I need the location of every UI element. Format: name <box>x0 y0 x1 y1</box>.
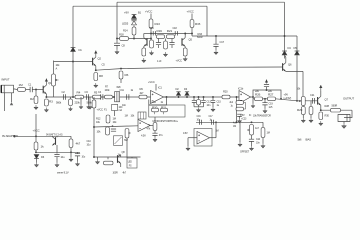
svg-text:1M: 1M <box>233 125 236 128</box>
ground arrow input jack <box>10 102 13 105</box>
power arrow C20 <box>265 80 268 84</box>
junction IC1 out <box>166 96 168 98</box>
label 560k b <box>87 101 93 105</box>
label C13 <box>207 101 212 104</box>
pot VOL wiper <box>55 79 58 81</box>
junction C17 <box>215 35 217 37</box>
label Cb2 <box>87 140 92 143</box>
transistor Q2 <box>93 57 96 66</box>
wire c19 low <box>264 105 266 109</box>
label 4.5V right <box>284 96 292 100</box>
label 4.5Va <box>141 134 146 138</box>
capacitor Cp2 <box>75 154 80 156</box>
label +VCC flasher r <box>176 59 183 63</box>
label R18 <box>119 33 124 37</box>
wire bias vert x94 <box>93 108 95 157</box>
capacitor C20 <box>264 85 269 87</box>
label 1n flasher <box>157 60 162 63</box>
junction x36 y152 <box>35 151 37 153</box>
junction x284 y36 <box>284 35 286 37</box>
diode D2 <box>176 92 180 96</box>
wire Qb coll <box>120 155 122 157</box>
wire IC1b feedback <box>236 97 238 122</box>
wire vertical x297 upper <box>296 36 298 51</box>
feedback box <box>149 105 185 117</box>
ground R29 <box>301 118 305 123</box>
wire Q7 emit <box>320 105 322 110</box>
label R25 <box>332 104 338 108</box>
capacitor Cp1 <box>54 155 59 157</box>
svg-text:220k: 220k <box>75 101 81 105</box>
wire level bottom <box>263 98 268 100</box>
svg-text:MXR DISTORTION+: MXR DISTORTION+ <box>153 119 179 123</box>
wire x36 low <box>35 150 37 152</box>
wire D6 low <box>36 159 38 163</box>
wire C8 stub <box>116 45 118 49</box>
wire rail y33.5 <box>151 33 192 35</box>
ground Rp2 <box>69 157 73 162</box>
ground flasher b <box>163 52 167 57</box>
wire vcc stub x151 <box>150 14 152 20</box>
svg-text:INPUT: INPUT <box>2 78 10 82</box>
label fuse2 <box>104 108 107 112</box>
label botblob1 <box>113 172 119 175</box>
wire chain stub top <box>154 117 156 123</box>
resistor R10 <box>152 106 159 112</box>
resistor R25 <box>331 108 341 112</box>
label railc2a <box>209 115 214 118</box>
label railc2b <box>210 118 213 121</box>
wire shunt198 stub <box>198 97 200 100</box>
wire top rail y6 <box>73 5 207 7</box>
junction Q7 emit <box>320 109 322 111</box>
capacitor C1 <box>30 87 32 93</box>
label C11 <box>120 88 125 92</box>
label R5 <box>94 91 98 95</box>
wire fb cap stub <box>239 116 241 118</box>
label C17 <box>220 40 225 44</box>
wire output corner <box>344 110 352 117</box>
svg-text:4.5V: 4.5V <box>183 132 188 135</box>
component box small <box>112 105 118 111</box>
ground cf1 <box>238 142 242 147</box>
label 1kc <box>118 153 121 157</box>
label t3 <box>253 115 271 118</box>
resistor shunt70 <box>69 99 73 106</box>
label R9 <box>140 87 144 91</box>
ground R2 <box>34 105 38 110</box>
resistor R12b <box>153 123 157 131</box>
wire shunt198 low <box>198 105 200 107</box>
opamp box IC3 <box>194 129 212 147</box>
ground bias chain <box>153 137 157 142</box>
junction R14 foot <box>133 38 135 40</box>
svg-text:R30: R30 <box>325 114 330 118</box>
wire r22 stub <box>158 39 160 43</box>
label D1 <box>79 48 83 52</box>
label 6k8 <box>117 85 121 89</box>
label C1 <box>28 83 32 87</box>
wire x57 down <box>56 145 58 154</box>
capacitor C17 <box>213 44 218 46</box>
resistor R24 <box>183 48 187 56</box>
ground below R5 <box>88 105 92 110</box>
wire vertical x297 lower <box>296 55 298 101</box>
wire bias y157 <box>94 156 141 158</box>
ground IC3 <box>186 146 190 151</box>
label 10k pot <box>297 88 301 91</box>
label led2 <box>128 162 133 164</box>
ground fb <box>237 119 241 124</box>
junction x151 y38.5 <box>150 38 152 40</box>
wire rail y36 <box>192 35 297 37</box>
capacitor Cb1 plus <box>112 125 114 127</box>
capacitor C23f <box>169 43 174 45</box>
resistor R8 <box>94 73 103 81</box>
wire c18 stub <box>165 39 167 42</box>
resistor R6 <box>119 71 128 79</box>
svg-text:R20: R20 <box>223 90 228 94</box>
capacitor C11 <box>127 94 129 100</box>
wire R1 to C1 <box>26 89 31 91</box>
wire R2 stub <box>35 90 37 97</box>
label 1Mb <box>113 117 116 121</box>
wire Q7 coll <box>320 91 322 96</box>
output jack <box>338 115 350 122</box>
svg-text:1M: 1M <box>216 130 219 133</box>
junction shunt213 <box>212 96 214 98</box>
wire y152 rail <box>36 151 80 153</box>
resistor shunt94 <box>92 100 96 108</box>
label MXR DISTORTION+ <box>153 119 179 123</box>
wire Q4 emit <box>143 46 145 48</box>
svg-text:10k TRANSISTOR: 10k TRANSISTOR <box>253 115 271 118</box>
svg-text:IC: IC <box>249 114 252 117</box>
resistor R11 <box>161 106 168 112</box>
label zener <box>57 171 69 175</box>
op-amp IC1b <box>239 91 251 104</box>
svg-text:+VCC: +VCC <box>176 59 183 63</box>
capacitor C19 <box>262 103 267 105</box>
svg-text:610R: 610R <box>197 36 203 39</box>
junction fb top <box>236 96 238 98</box>
ground below R4 <box>79 105 83 109</box>
resistor R5 <box>93 95 102 99</box>
wire shunt213 stub <box>212 97 214 100</box>
wire signal main <box>46 96 253 98</box>
pot bias wiper <box>128 132 130 134</box>
label C3 <box>85 90 89 94</box>
svg-text:R6: R6 <box>125 73 129 77</box>
label D2 <box>176 87 180 91</box>
svg-text:R2: R2 <box>30 97 34 101</box>
LED bar <box>131 18 136 20</box>
svg-text:+C23: +C23 <box>241 118 247 121</box>
label +9V <box>124 11 129 15</box>
junction shunt194 <box>193 96 195 98</box>
svg-text:R3: R3 <box>49 100 53 104</box>
label 1Mc <box>125 115 128 118</box>
resistor R1 <box>18 83 26 91</box>
ground Cp1 <box>55 163 59 168</box>
label fbl2 <box>231 105 234 108</box>
resistor R31 <box>309 107 313 115</box>
label bias blob1 <box>298 138 302 142</box>
label C15 <box>217 101 222 104</box>
svg-text:+VCC: +VCC <box>145 10 152 14</box>
label IC1 <box>158 86 162 90</box>
resistor R18 <box>120 37 129 41</box>
svg-text:560k: 560k <box>87 101 93 105</box>
svg-text:+VCC: +VCC <box>97 108 104 112</box>
svg-text:OUTPUT: OUTPUT <box>343 97 354 101</box>
label 610R <box>197 36 203 39</box>
resistor Rb1 <box>106 115 110 123</box>
junction Q5 coll <box>184 33 186 35</box>
resistor R29 <box>297 107 305 115</box>
op-amp IC3 <box>197 132 210 145</box>
svg-text:R12: R12 <box>96 117 101 121</box>
wire shunt303 low <box>302 115 304 119</box>
junction y122 c <box>251 121 253 123</box>
capacitor shunt194 <box>192 100 196 102</box>
label t1 <box>240 114 245 117</box>
capacitor Cb1 <box>111 129 116 131</box>
svg-text:IC1b: IC1b <box>238 87 244 91</box>
wire Q2 drain <box>95 56 97 59</box>
svg-text:R8: R8 <box>99 74 103 78</box>
wire y122 rail a <box>196 121 263 123</box>
transistor Q6 <box>283 63 286 72</box>
switch box <box>114 136 123 146</box>
svg-text:1 nF: 1 nF <box>157 60 162 63</box>
resistor R15 <box>190 20 201 28</box>
wire shunt common <box>194 106 204 108</box>
wire gnd stub 90 <box>89 97 91 105</box>
label C14 <box>159 134 163 137</box>
wire bias chain low <box>154 135 156 137</box>
capacitor rail2 <box>211 120 213 125</box>
label IC1b <box>238 87 244 91</box>
wire Q5 emitter stub <box>184 46 186 48</box>
junction base R2 <box>35 89 37 91</box>
svg-text:C11: C11 <box>120 88 125 92</box>
label offset <box>240 151 250 154</box>
resistor R17 <box>150 40 154 48</box>
wire IC3 out <box>210 137 217 139</box>
resistor R9 <box>139 95 147 99</box>
wire shunt203 stub <box>203 97 205 100</box>
wire cf x263 low <box>262 138 264 144</box>
resistor R20 <box>222 95 230 99</box>
label 4k7b <box>140 91 144 95</box>
wire Q6 collector <box>285 57 287 63</box>
feedback loop wires <box>236 103 246 110</box>
label +VCC x192 <box>187 10 194 14</box>
wire C1 to Q1 <box>32 89 43 91</box>
junction x71 y152 <box>70 151 72 153</box>
svg-text:560R: 560R <box>332 104 338 108</box>
trimmer box 2 <box>138 112 146 119</box>
svg-text:R15: R15 <box>195 22 201 26</box>
wire vol top <box>53 61 55 98</box>
junction level mid <box>264 98 266 100</box>
junction Q1 emitter <box>45 96 47 98</box>
wire shunt94 stub <box>93 97 95 100</box>
capacitor shunt213 <box>211 100 215 102</box>
label 1k <box>131 88 134 92</box>
label R30 <box>325 114 330 118</box>
svg-text:+9V: +9V <box>124 11 129 15</box>
wire IC3 in <box>188 137 197 139</box>
resistor R2 <box>30 96 38 104</box>
wire top rail y2 <box>117 1 285 3</box>
wire Cp2 low <box>77 156 79 162</box>
wire c19 stub <box>264 99 266 103</box>
svg-text:1M: 1M <box>267 132 270 135</box>
resistor R3 <box>45 99 54 106</box>
wire bias y127 <box>94 126 138 127</box>
pot cf wiper <box>247 129 249 131</box>
wire cf x240 <box>239 122 241 142</box>
svg-text:1M: 1M <box>19 83 24 87</box>
ground R3 <box>44 108 48 113</box>
label 10kd <box>97 130 102 134</box>
resistor R23 <box>164 41 168 49</box>
ground Cp2 <box>75 162 79 167</box>
label Cp1 <box>61 155 66 159</box>
capacitor C8 <box>114 43 120 45</box>
svg-text:R4: R4 <box>77 91 81 95</box>
wire r23 stub <box>171 39 173 43</box>
wire y38.5 link <box>117 38 151 40</box>
wire x151 mid <box>150 28 152 42</box>
label D3 <box>184 87 188 91</box>
diode D8 <box>132 21 137 25</box>
capacitor C16 <box>153 31 155 35</box>
label +VCC x151 <box>145 10 152 14</box>
wire bias long <box>96 67 283 70</box>
pot bias <box>125 129 129 139</box>
resistor Q4e <box>142 48 146 56</box>
label C16 <box>150 27 155 30</box>
wire level left join <box>253 98 255 100</box>
wire x71 low2 <box>70 152 72 157</box>
label Q7 <box>325 98 329 102</box>
ground Q5 <box>183 57 187 62</box>
svg-text:560k: 560k <box>56 101 62 105</box>
wire level loop <box>253 90 281 99</box>
label +VCC power <box>33 129 40 133</box>
label cfl1 <box>233 122 237 125</box>
resistor cf <box>261 128 265 138</box>
label Q1 <box>48 81 52 85</box>
svg-text:1M: 1M <box>113 117 116 121</box>
wire D4 bottom <box>284 55 286 58</box>
transistor Q1 <box>43 85 46 94</box>
label cf3 <box>256 141 260 144</box>
label C19b <box>269 106 273 109</box>
wire outjack gnd stub <box>343 122 345 124</box>
resistor R4 <box>75 91 84 99</box>
label 10kc <box>113 120 118 124</box>
indicator box <box>127 158 137 168</box>
svg-text:LED5: LED5 <box>122 22 129 26</box>
junction x297 signal <box>296 100 298 102</box>
wire x36 up stub <box>35 114 37 136</box>
wire C17 stub <box>215 36 217 44</box>
junction x151 y33.5 <box>150 33 152 35</box>
junction y122 b <box>236 121 238 123</box>
resistor R7 <box>105 95 113 99</box>
wire IC3 feedback <box>215 122 217 137</box>
wire gnd stub 88 <box>88 97 90 105</box>
wire box stub <box>114 111 116 117</box>
label R7b <box>105 89 111 92</box>
ground bias left <box>95 160 99 165</box>
svg-text:+9V: +9V <box>284 93 289 97</box>
wire vertical x73 <box>72 6 74 97</box>
wire level right <box>276 99 298 101</box>
label 10nb <box>207 104 211 107</box>
wire x36 down <box>35 136 37 142</box>
wire Q6 emitter <box>285 70 287 72</box>
label +VCC IC1 <box>148 80 155 84</box>
junction x73 y61.5 <box>72 61 74 63</box>
junction d3 <box>186 96 188 98</box>
label 10ub <box>87 144 91 147</box>
wire vcc stub x192 <box>191 14 193 20</box>
junction x114 <box>113 96 115 98</box>
label INPUT <box>2 78 10 82</box>
svg-text:R28: R28 <box>325 104 330 108</box>
ground C8 <box>115 50 119 55</box>
resistor R27 <box>268 93 276 101</box>
wire Q2 source down <box>95 66 97 70</box>
resistor R13 <box>149 19 160 28</box>
svg-text:R14: R14 <box>123 29 128 33</box>
svg-text:LED: LED <box>128 162 133 164</box>
label D5 <box>294 46 298 50</box>
wire x57 rail stub <box>56 135 58 138</box>
junction loop right low <box>280 98 282 100</box>
ground C17 <box>214 50 218 55</box>
junction x192 y33.5 <box>191 33 193 35</box>
capacitor cf <box>249 139 254 141</box>
wire vertical x284 upper <box>284 2 286 51</box>
junction x121 bias <box>120 68 122 70</box>
diode D1 <box>71 48 76 52</box>
label R16 <box>198 32 203 36</box>
wire pot down <box>126 138 128 158</box>
capacitor C3 <box>86 94 88 100</box>
ground output jack <box>342 124 347 129</box>
label C12 <box>152 100 157 104</box>
junction shunt203 <box>203 96 205 98</box>
trimmer box <box>115 92 120 102</box>
wire power rail <box>16 135 71 137</box>
junction IC3 fb <box>215 121 217 123</box>
wire diode D2 stub <box>178 96 180 97</box>
label +VCC fuse <box>97 108 104 112</box>
label 22k <box>255 89 260 93</box>
capacitor C18 <box>175 31 177 35</box>
label B1 <box>138 11 142 15</box>
label C19 <box>269 103 274 106</box>
wire Q5 collector <box>184 34 186 38</box>
svg-text:4.5V: 4.5V <box>240 114 245 117</box>
pot cf <box>250 125 254 136</box>
